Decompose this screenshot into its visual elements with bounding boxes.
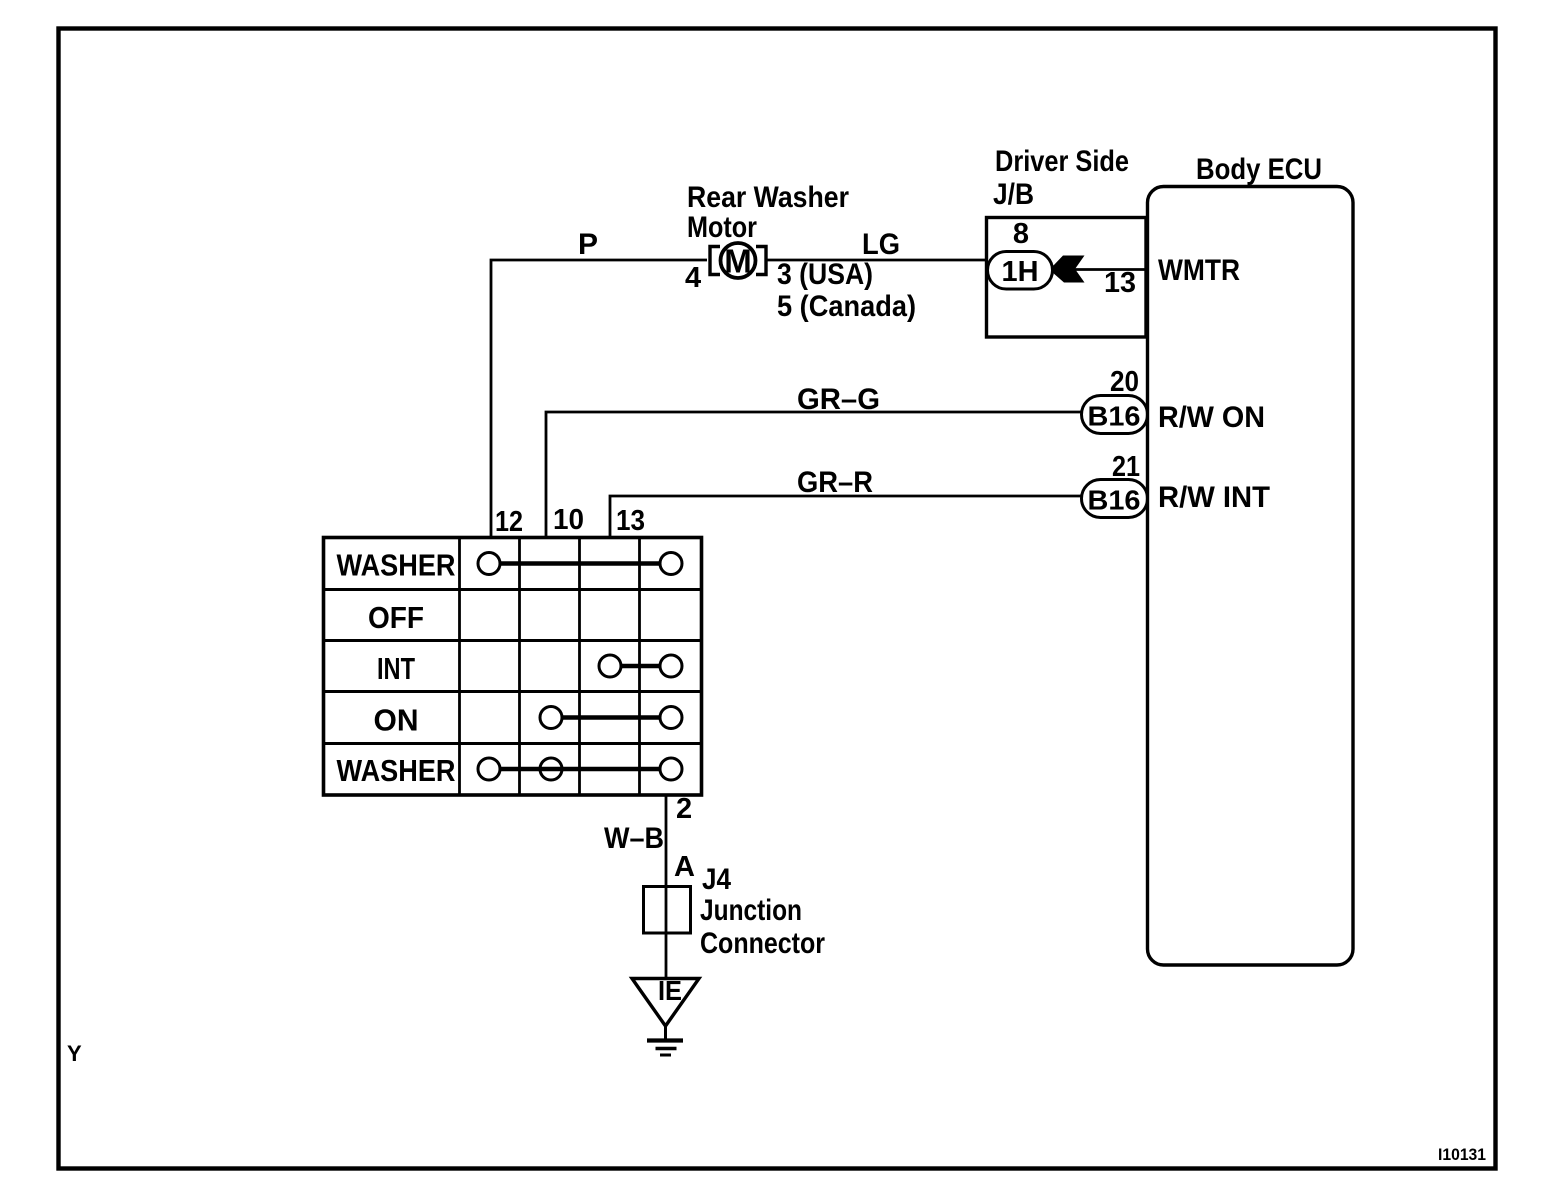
svg-text:WASHER: WASHER: [337, 753, 456, 788]
svg-text:WMTR: WMTR: [1158, 254, 1240, 287]
svg-text:WASHER: WASHER: [337, 548, 456, 583]
svg-text:12: 12: [495, 506, 523, 538]
svg-text:J4: J4: [702, 863, 731, 896]
svg-text:5 (Canada): 5 (Canada): [777, 290, 916, 323]
svg-text:LG: LG: [862, 228, 900, 261]
svg-text:INT: INT: [377, 651, 415, 686]
washer switch table box: [324, 538, 702, 796]
contact row INT: circles and bar: [621, 664, 660, 669]
svg-text:R/W INT: R/W INT: [1158, 481, 1270, 514]
svg-text:4: 4: [685, 262, 701, 294]
svg-text:Driver Side: Driver Side: [995, 145, 1129, 178]
svg-text:13: 13: [1104, 267, 1136, 299]
contact row WASHER: circles and bar: [500, 561, 660, 566]
contact row WASHER2: circles and bar: [500, 767, 660, 772]
svg-text:Motor: Motor: [687, 211, 757, 244]
svg-text:3 (USA): 3 (USA): [777, 258, 873, 291]
svg-text:Junction: Junction: [700, 894, 802, 927]
connector B16 (R/W INT): [1082, 480, 1148, 518]
connector arrow: [1052, 256, 1085, 283]
Body ECU box: [1148, 187, 1354, 966]
motor circle M: [721, 243, 756, 278]
wire P (washer switch pin 12 to rear washer motor pin 4): [491, 260, 707, 537]
svg-text:GR–R: GR–R: [797, 466, 873, 499]
svg-text:R/W ON: R/W ON: [1158, 401, 1265, 434]
motor terminal bracket right: [756, 247, 766, 275]
ground stub: [664, 1024, 667, 1040]
svg-text:B16: B16: [1088, 401, 1141, 432]
svg-text:Body ECU: Body ECU: [1196, 153, 1322, 186]
svg-text:Y: Y: [67, 1041, 82, 1066]
svg-text:Rear Washer: Rear Washer: [687, 181, 849, 214]
junction block Driver Side J/B box: [987, 218, 1147, 338]
switch table row lines: [324, 590, 702, 744]
svg-text:P: P: [578, 228, 598, 261]
ground bars: [647, 1038, 683, 1042]
svg-text:10: 10: [553, 504, 584, 536]
contact row ON: circles and bar: [562, 715, 660, 720]
motor terminal bracket left: [710, 247, 720, 275]
svg-text:A: A: [674, 851, 695, 883]
connector 1H: [988, 252, 1053, 290]
svg-text:8: 8: [1013, 218, 1029, 250]
svg-text:I10131: I10131: [1438, 1145, 1486, 1164]
wire WMTR (Body ECU pin 13 to J/B): [1072, 268, 1147, 271]
svg-text:13: 13: [616, 505, 645, 537]
svg-text:Connector: Connector: [700, 927, 825, 960]
svg-text:ON: ON: [374, 703, 419, 738]
ground IE triangle: [632, 979, 699, 1027]
svg-text:B16: B16: [1088, 485, 1141, 516]
wire LG (motor to J/B 1H pin 8): [766, 259, 988, 262]
svg-text:J/B: J/B: [993, 178, 1034, 211]
svg-text:2: 2: [676, 793, 692, 825]
svg-text:W–B: W–B: [604, 822, 664, 855]
svg-text:M: M: [724, 243, 752, 280]
wire W-B (switch pin 2 to ground): [665, 795, 668, 978]
svg-text:OFF: OFF: [368, 600, 424, 635]
junction connector J4 box: [644, 887, 691, 934]
svg-text:GR–G: GR–G: [797, 383, 880, 416]
rear washer motor: [710, 243, 766, 280]
svg-text:IE: IE: [658, 975, 682, 1006]
wire GR-R (washer switch pin 13 to Body ECU pin 21): [610, 496, 1081, 537]
switch table column lines: [460, 538, 640, 796]
svg-text:1H: 1H: [1002, 256, 1039, 288]
svg-text:20: 20: [1110, 366, 1139, 398]
connector B16 (R/W ON): [1082, 396, 1148, 434]
wire GR-G (washer switch pin 10 to Body ECU pin 20): [546, 412, 1081, 537]
